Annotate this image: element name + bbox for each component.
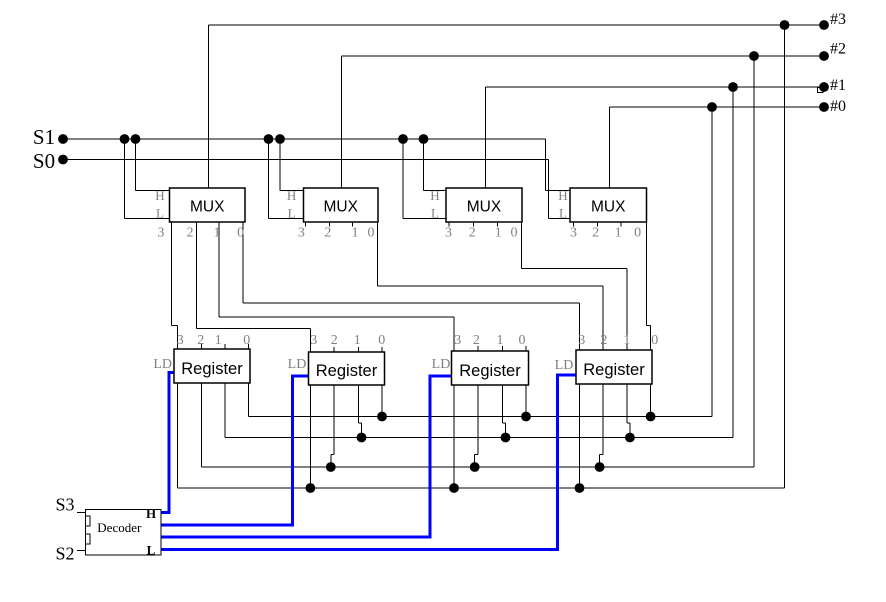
svg-text:3: 3 [157,226,164,241]
svg-text:2: 2 [592,226,599,241]
svg-text:2: 2 [473,333,480,348]
svg-text:#0: #0 [830,98,846,115]
svg-text:LD: LD [288,357,307,372]
svg-text:L: L [288,205,296,220]
svg-text:L: L [156,205,164,220]
svg-text:L: L [559,205,567,220]
svg-text:2: 2 [469,226,476,241]
svg-text:0: 0 [237,226,244,241]
svg-text:MUX: MUX [324,199,359,216]
svg-text:MUX: MUX [591,199,626,216]
svg-text:3: 3 [578,333,585,348]
svg-text:S3: S3 [55,495,74,515]
svg-text:3: 3 [454,333,461,348]
svg-text:2: 2 [324,226,331,241]
svg-text:Register: Register [459,362,521,380]
svg-text:0: 0 [378,333,385,348]
svg-text:0: 0 [651,333,658,348]
svg-text:3: 3 [310,333,317,348]
svg-text:0: 0 [243,333,250,348]
svg-text:1: 1 [497,333,504,348]
svg-text:Register: Register [181,360,243,378]
svg-text:H: H [146,506,156,521]
svg-text:1: 1 [354,333,361,348]
svg-text:H: H [155,188,164,203]
svg-text:#2: #2 [830,41,846,58]
svg-text:2: 2 [600,333,607,348]
svg-text:1: 1 [215,333,222,348]
svg-text:2: 2 [331,333,338,348]
svg-text:3: 3 [570,226,577,241]
svg-text:H: H [287,188,296,203]
svg-text:1: 1 [623,333,630,348]
svg-text:H: H [430,188,439,203]
svg-text:1: 1 [352,226,359,241]
svg-text:MUX: MUX [190,199,225,216]
svg-text:3: 3 [298,226,305,241]
svg-text:LD: LD [432,357,451,372]
svg-text:MUX: MUX [467,199,502,216]
svg-text:0: 0 [519,333,526,348]
svg-text:S1: S1 [33,125,55,149]
svg-text:1: 1 [495,226,502,241]
svg-text:H: H [558,188,567,203]
svg-text:S2: S2 [55,544,74,564]
svg-text:L: L [431,205,439,220]
svg-text:2: 2 [187,226,194,241]
svg-text:1: 1 [615,226,622,241]
svg-text:0: 0 [511,226,518,241]
svg-text:Decoder: Decoder [97,520,142,535]
svg-text:#3: #3 [830,11,846,28]
svg-text:L: L [147,543,156,558]
svg-text:S0: S0 [33,149,55,173]
svg-text:#1: #1 [830,77,846,94]
svg-text:Register: Register [583,361,645,379]
svg-text:0: 0 [368,226,375,241]
svg-text:3: 3 [177,333,184,348]
svg-text:1: 1 [214,226,221,241]
svg-text:0: 0 [634,226,641,241]
svg-text:Register: Register [316,362,378,380]
svg-text:LD: LD [555,358,574,373]
svg-text:LD: LD [153,357,172,372]
svg-text:2: 2 [197,333,204,348]
svg-text:3: 3 [445,226,452,241]
